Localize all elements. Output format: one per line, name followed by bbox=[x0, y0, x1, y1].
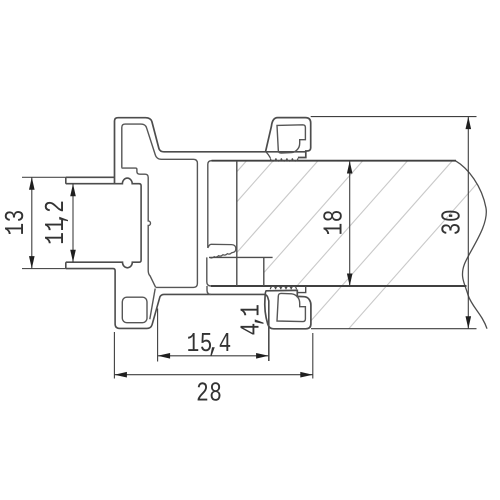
stem inner bottom step + left wall inner line with notch bbox=[122, 167, 156, 287]
dim 28: dimension line bbox=[114, 374, 312, 376]
dim 15,4: dimension line bbox=[158, 355, 269, 357]
top gasket teeth on glass bbox=[270, 158, 298, 161]
svg-text:28: 28 bbox=[196, 379, 222, 409]
bottom gasket inner bbox=[277, 293, 305, 321]
svg-text:30: 30 bbox=[438, 209, 468, 235]
dim 13: dimension line bbox=[31, 177, 33, 268]
dim 15,4: left extension line bbox=[157, 309, 159, 362]
13-dim bottom extension bbox=[22, 268, 66, 270]
dim 30: top extension line bbox=[311, 116, 477, 118]
foot hollow cavity bbox=[122, 297, 147, 323]
glazing clip finger with serrated underside bbox=[208, 244, 236, 258]
dim 18: dimension line bbox=[349, 161, 351, 286]
dim 15,4 arrows bbox=[158, 353, 171, 359]
dim 18 extension stubs bbox=[337, 160, 359, 162]
dim 30: bottom extension line bbox=[311, 328, 477, 330]
glass break line (right edge S-curve) bbox=[455, 161, 487, 329]
dim 11,2: dimension line bbox=[72, 184, 74, 263]
svg-text:15,4: 15,4 bbox=[187, 330, 232, 360]
top gasket outer bbox=[266, 118, 311, 158]
dim 28 arrows bbox=[114, 372, 127, 378]
svg-text:18: 18 bbox=[320, 210, 350, 236]
glass bottom edge bbox=[211, 285, 467, 287]
dim 28: right extension line bbox=[312, 333, 314, 379]
svg-text:4,1: 4,1 bbox=[237, 304, 267, 335]
bridge left wall down to glass bottom line bbox=[207, 257, 211, 286]
top gasket lip left closure bbox=[266, 151, 271, 158]
left C-channel arm (snap channel) with screw-boss bumps bbox=[66, 177, 141, 268]
dim 13 arrows bbox=[29, 177, 35, 190]
web right lower fillet to flange bbox=[207, 286, 211, 294]
dim 28: left extension line bbox=[113, 332, 115, 379]
bottom gasket step (aluminium) bbox=[298, 287, 306, 293]
dim 11,2 arrows bbox=[70, 184, 76, 197]
bottom gasket outer bbox=[265, 290, 311, 328]
top arm upper line + 13-dim top extension bbox=[22, 176, 66, 178]
foot inner slope bbox=[150, 289, 155, 320]
glass top edge bbox=[212, 160, 457, 162]
frame outer contour: stem top + top flange bbox=[115, 118, 306, 184]
svg-text:11,2: 11,2 bbox=[42, 200, 72, 245]
dim 30 arrows bbox=[466, 117, 472, 130]
frame inner contour: stem inner + flange bottom + web left + flange top left bbox=[122, 124, 198, 287]
glazing bridge step top bbox=[209, 256, 273, 258]
web right line from glass top corner down to clip finger root bbox=[208, 161, 212, 248]
bottom arm lower line + foot outer + bottom flange lower + corner down bbox=[66, 269, 269, 361]
svg-text:13: 13 bbox=[2, 210, 32, 236]
step right edge bbox=[263, 257, 265, 286]
glass pane hatching bbox=[70, 161, 497, 361]
glass left edge bbox=[236, 161, 238, 286]
bottom gasket teeth on glass bbox=[270, 286, 296, 289]
dim 18 arrows bbox=[347, 161, 353, 174]
dim 30: dimension line bbox=[467, 117, 469, 329]
top gasket inner bbox=[277, 125, 305, 153]
